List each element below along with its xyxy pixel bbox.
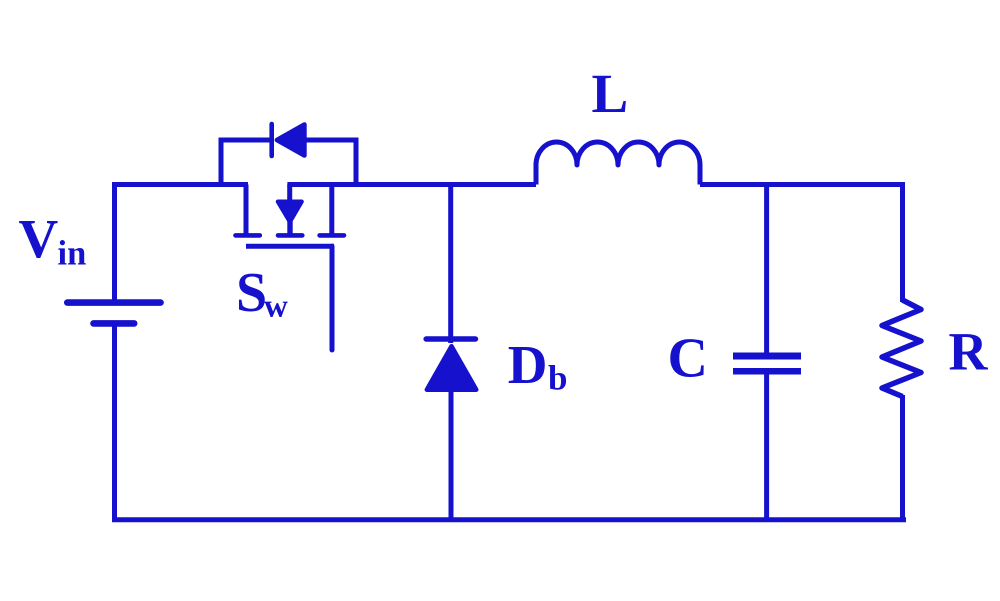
inductor L — [536, 142, 700, 185]
transistor Sw contact bars — [236, 233, 345, 238]
transistor Sw gate bar — [246, 244, 334, 249]
battery V_in — [67, 303, 160, 324]
wire: input left loop (Vin+ to top rail, Vin- to bottom rail) — [115, 185, 907, 520]
transistor Sw (MOSFET) drain lead — [244, 185, 249, 236]
resistor R bottom lead — [900, 395, 905, 520]
svg-text:w: w — [264, 289, 288, 325]
resistor R zigzag — [882, 300, 921, 397]
svg-text:in: in — [58, 235, 87, 273]
label C — [668, 328, 708, 390]
diode Db cathode bar — [426, 336, 475, 341]
diode Db cathode lead — [448, 185, 453, 344]
transistor Sw gate lead — [330, 246, 335, 350]
svg-text:S: S — [236, 262, 267, 324]
transistor Sw body arrow — [278, 185, 302, 236]
diode Db triangle — [427, 346, 477, 390]
wire: switch node rail to inductor and output — [287, 182, 536, 187]
svg-text:b: b — [548, 359, 567, 398]
svg-text:L: L — [592, 63, 629, 124]
label Vin — [19, 208, 87, 273]
svg-text:C: C — [668, 328, 708, 390]
capacitor C top lead — [764, 185, 769, 360]
diode Db anode lead — [449, 390, 454, 520]
svg-text:R: R — [949, 322, 989, 382]
transistor Sw (MOSFET) source lead — [329, 185, 334, 236]
svg-text:D: D — [508, 334, 548, 395]
label Sw — [236, 262, 288, 325]
capacitor C bottom lead — [764, 371, 769, 520]
svg-text:V: V — [19, 208, 59, 269]
label R — [949, 322, 989, 382]
label Db — [508, 334, 568, 398]
capacitor C plates — [733, 356, 801, 371]
body diode of switch (top loop) — [221, 124, 356, 185]
wire: inductor to output node and right rail corner — [700, 185, 903, 303]
label L — [592, 63, 629, 124]
